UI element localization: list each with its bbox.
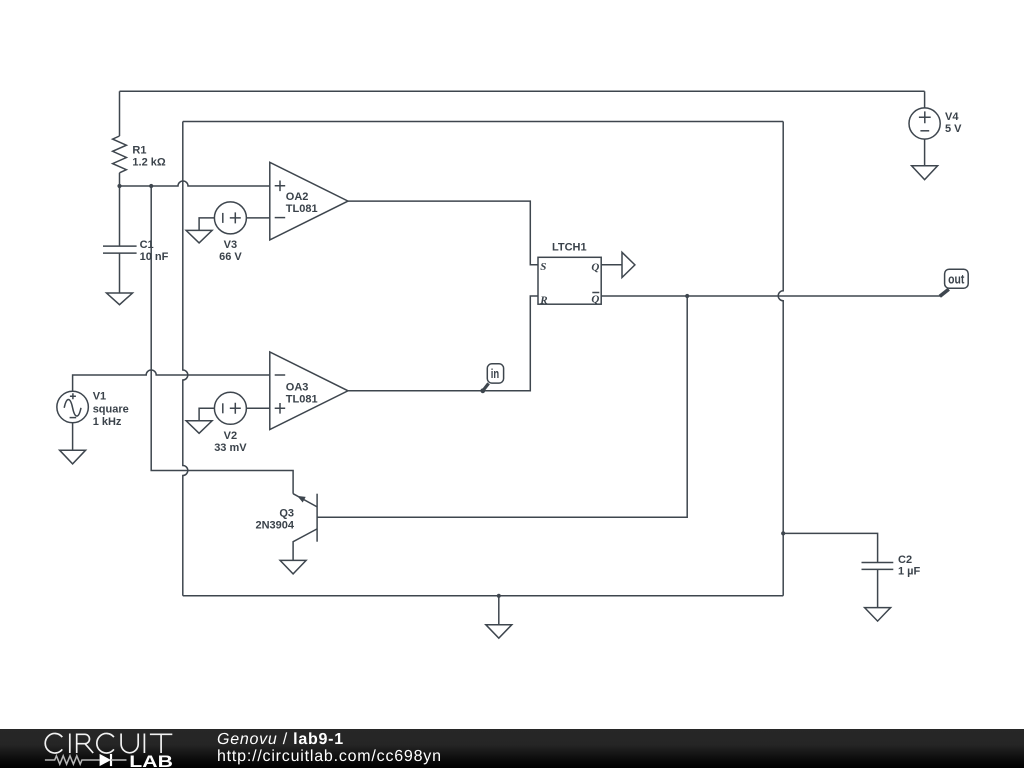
wire V2 minus to ground elbow [199,408,214,421]
voltage source V3 [214,202,246,234]
svg-text:OA3: OA3 [286,382,309,394]
op-amp OA3 [270,352,348,430]
junction node at R1/C1 [117,184,121,188]
Q3 labels [255,507,294,531]
svg-text:in: in [491,367,499,381]
svg-text:V3: V3 [224,239,237,251]
svg-text:33 mV: 33 mV [214,442,247,454]
OA3 labels [286,382,318,406]
svg-text:Q: Q [591,294,599,306]
svg-text:TL081: TL081 [286,203,318,215]
wire V3 minus to ground elbow [199,218,214,231]
C1 value labels [140,239,169,263]
V3 labels [219,239,242,263]
output arrow indicator [622,252,635,277]
C2 labels [898,554,921,578]
svg-text:V4: V4 [945,111,959,123]
wire box top edge [183,121,783,123]
svg-text:1.2 kΩ: 1.2 kΩ [132,157,165,169]
footer url text [217,748,442,766]
svg-text:TL081: TL081 [286,393,318,405]
ground at box bottom [486,625,512,639]
ground below C1 [107,293,133,305]
wire box right edge with hop [778,122,783,596]
voltage source V4 [909,91,940,166]
ground below C2 [865,608,891,622]
latch LTCH1 [538,257,601,304]
pin Qbar [591,293,599,306]
svg-text:R: R [539,294,547,306]
wire OA2 output to latch S [348,201,538,265]
wire V1 bottom to ground [72,423,74,451]
capacitor C2 [783,533,893,607]
wire feedback down to Q3 base [317,296,687,517]
svg-text:5 V: 5 V [945,123,962,135]
junction node at tap [149,184,153,188]
svg-text:LTCH1: LTCH1 [552,242,587,254]
node flag out [940,269,968,296]
svg-text:66 V: 66 V [219,251,242,263]
svg-text:OA2: OA2 [286,191,309,203]
svg-text:10 nF: 10 nF [140,251,169,263]
wire from tap node down and right to Q3 [151,186,293,494]
wire box bottom edge [183,595,783,597]
junction at Qbar feedback [685,294,689,298]
transistor Q3 [293,494,317,561]
footer bar [0,729,1024,768]
svg-text:V2: V2 [224,430,237,442]
junction at bottom ground [497,594,501,598]
OA2 labels [286,191,318,215]
V1 labels [93,391,129,429]
svg-text:out: out [948,273,965,287]
wire OA3 output to latch R [348,296,538,391]
svg-text:S: S [540,261,546,273]
ground below Q3 emitter [280,560,306,574]
V4 labels [945,111,962,135]
voltage source V1 [57,391,89,423]
wire box loop left edge with hops [183,122,188,596]
V2 labels [214,430,247,454]
svg-text:Q: Q [591,262,599,274]
svg-text:1 µF: 1 µF [898,566,921,578]
footer title text [217,731,344,749]
svg-text:2N3904: 2N3904 [255,520,294,532]
wire V1 top to OA3 inverting input with hops [73,370,270,391]
wire node row to OA2 + input with hop over box edge [120,181,270,186]
resistor R1 [113,91,127,186]
svg-text:C2: C2 [898,554,912,566]
op-amp OA2 [270,162,348,240]
wire latch Q to arrow [601,264,622,266]
svg-text:square: square [93,403,129,415]
wire V3 plus to OA2 inverting input [246,217,269,219]
svg-text:Q3: Q3 [279,507,294,519]
voltage source V2 [214,392,246,424]
junction at C2 tap [781,531,785,535]
ground below V4 [912,166,938,180]
capacitor C1 [103,186,137,293]
svg-text:LAB: LAB [129,752,173,768]
wire to bottom ground [498,596,500,625]
svg-text:1 kHz: 1 kHz [93,416,122,428]
node flag in [480,364,503,393]
ground below V1 [60,450,86,464]
svg-text:V1: V1 [93,391,106,403]
wire V2 plus to OA3 non-inverting input [246,407,269,409]
CircuitLab logo [0,729,200,768]
wire top rail from R1 to V4 [120,90,925,92]
ground at V2 [186,421,212,434]
svg-text:R1: R1 [132,144,146,156]
R1 value labels [132,144,165,168]
ground at V3 [186,230,212,243]
wire latch Qbar to out flag [601,295,940,297]
